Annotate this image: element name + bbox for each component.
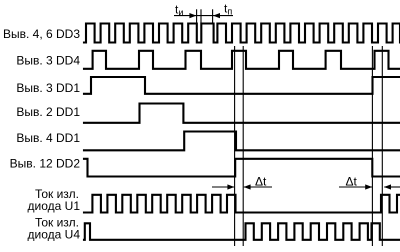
svg-text:Выв. 2 DD1: Выв. 2 DD1 [16, 105, 80, 119]
svg-text:Δt: Δt [346, 175, 358, 189]
svg-text:диода U4: диода U4 [28, 228, 81, 242]
svg-text:Выв. 12 DD2: Выв. 12 DD2 [10, 157, 81, 171]
svg-text:Выв. 3 DD1: Выв. 3 DD1 [16, 81, 80, 95]
svg-text:диода U1: диода U1 [28, 199, 81, 213]
svg-text:Δt: Δt [255, 175, 267, 189]
svg-text:Выв. 3 DD4: Выв. 3 DD4 [16, 54, 80, 68]
svg-text:Выв. 4, 6 DD3: Выв. 4, 6 DD3 [3, 27, 80, 41]
svg-text:Выв. 4 DD1: Выв. 4 DD1 [16, 131, 80, 145]
